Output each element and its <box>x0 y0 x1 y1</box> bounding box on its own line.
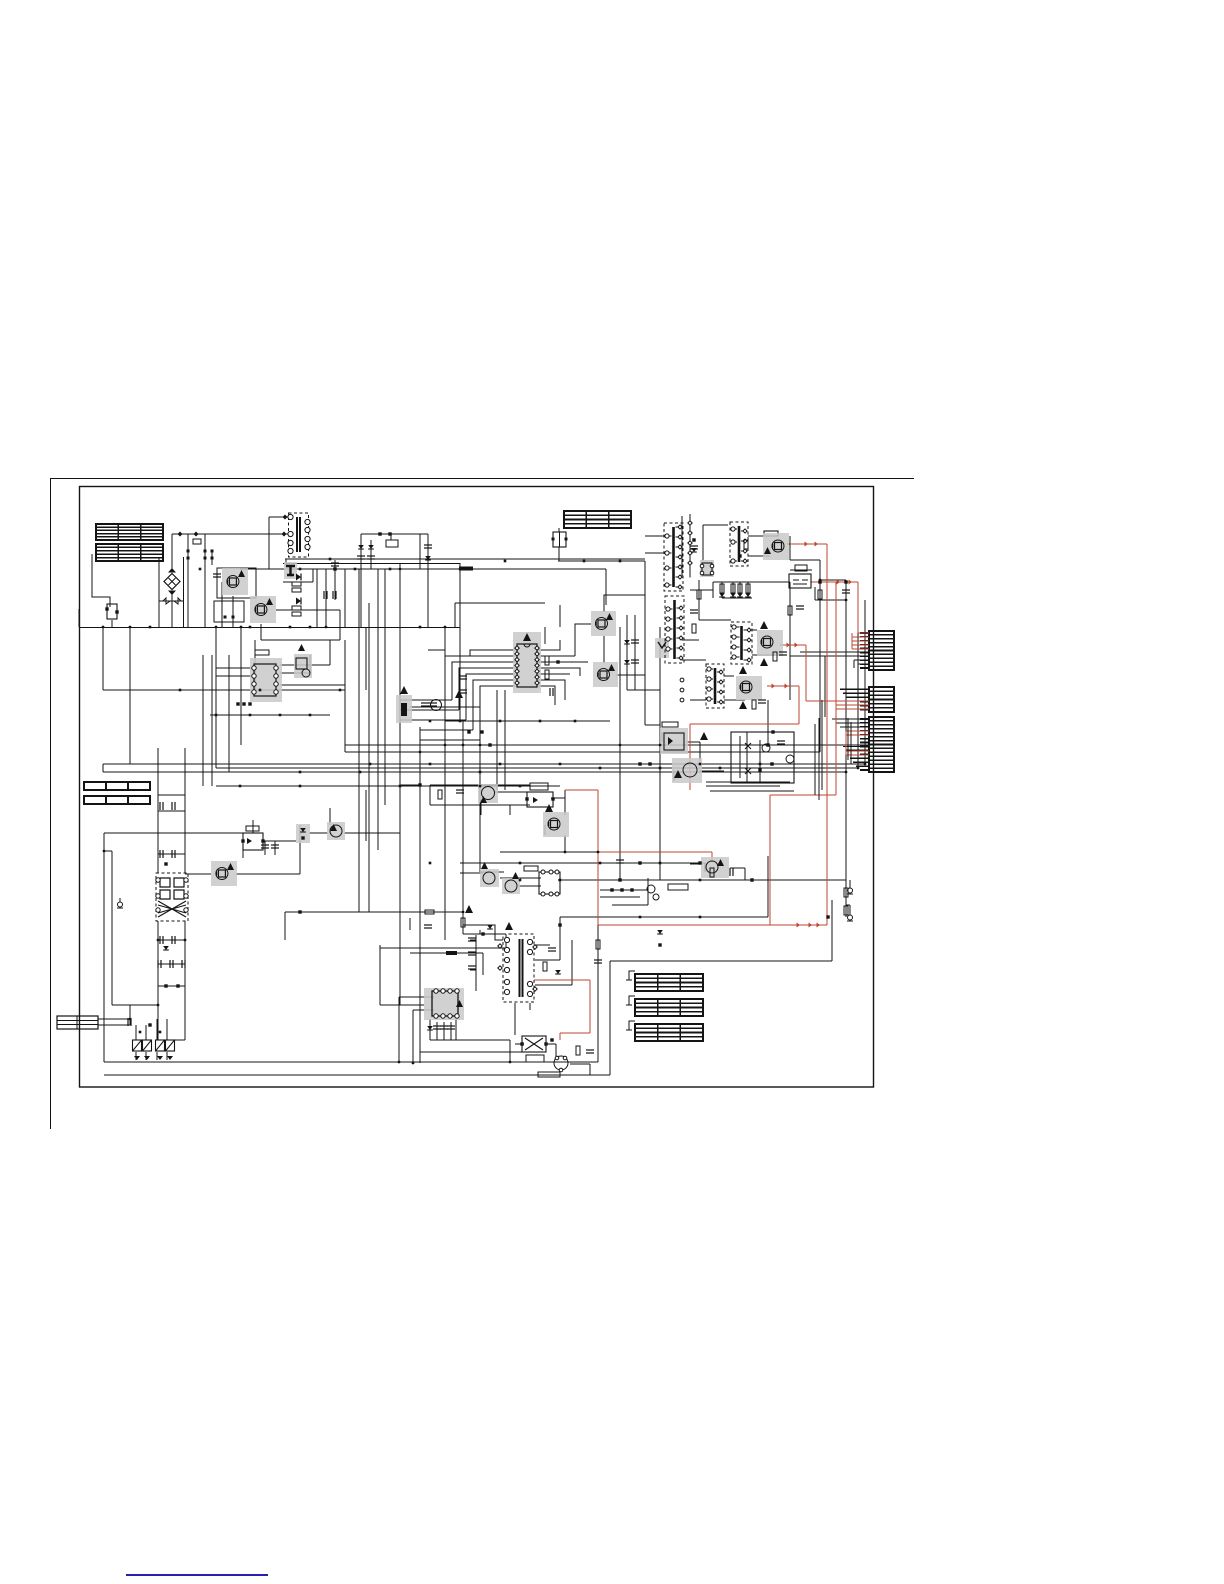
wire <box>857 590 859 768</box>
table hook <box>629 1021 635 1030</box>
wire <box>460 862 705 864</box>
wire (red net) <box>835 582 837 795</box>
wire <box>721 582 723 598</box>
diode pair <box>148 1023 151 1026</box>
wire <box>767 700 769 745</box>
wire <box>274 841 276 855</box>
junction <box>462 911 465 914</box>
junction <box>129 1018 132 1021</box>
wire <box>221 582 223 627</box>
wire <box>819 560 821 580</box>
wire <box>681 516 683 576</box>
wire <box>455 602 545 604</box>
sense cluster <box>600 878 659 905</box>
junction <box>149 626 152 629</box>
small choke L2 <box>700 560 714 577</box>
wire <box>410 706 480 708</box>
wire <box>399 996 434 998</box>
wire <box>360 534 362 627</box>
junction <box>699 763 702 766</box>
wire <box>482 953 484 975</box>
wire <box>864 600 866 764</box>
junction <box>339 689 342 692</box>
wire <box>412 1010 414 1062</box>
wire <box>518 885 541 887</box>
junction <box>479 744 482 747</box>
wire <box>819 652 821 752</box>
transistor Q12 <box>502 872 520 894</box>
wire <box>558 879 846 881</box>
junction <box>767 744 770 747</box>
wire <box>644 561 646 627</box>
junction <box>479 785 482 788</box>
junction <box>359 771 362 774</box>
wire (red net) <box>769 795 771 925</box>
wire <box>686 741 700 743</box>
cap C5 <box>187 550 190 553</box>
wire <box>98 1024 130 1026</box>
reg IC7 <box>524 866 560 896</box>
caps row C11 <box>324 591 327 599</box>
post-reg RG1 <box>789 565 811 588</box>
wire <box>365 790 367 825</box>
wire <box>845 772 847 917</box>
wire <box>78 609 80 627</box>
table note bottom-right 3 <box>635 1024 703 1041</box>
bridge rectifier D1 <box>164 568 180 595</box>
wire <box>603 636 605 663</box>
wire <box>103 689 345 691</box>
wire <box>767 856 769 917</box>
table hook <box>629 971 635 980</box>
wire <box>858 663 869 665</box>
wire <box>840 688 862 690</box>
red arrows <box>805 542 809 547</box>
wire <box>380 1004 424 1006</box>
wire <box>171 534 173 572</box>
wire <box>627 689 660 691</box>
wire <box>564 835 566 852</box>
gray pad <box>655 638 669 658</box>
junction <box>289 626 292 629</box>
junction <box>719 767 722 770</box>
ferrite bead <box>446 951 457 955</box>
wire <box>700 770 724 772</box>
wire <box>452 662 515 700</box>
wire (red net) <box>559 1033 561 1040</box>
wire <box>538 640 560 650</box>
junction <box>459 568 462 571</box>
wire <box>845 886 847 917</box>
wire <box>399 727 401 1005</box>
wire <box>739 582 741 598</box>
junction <box>759 763 762 766</box>
wire <box>509 1040 511 1062</box>
caps C21 <box>331 563 339 566</box>
wire <box>849 905 851 911</box>
junction <box>429 862 432 865</box>
wire <box>102 627 104 690</box>
wire <box>430 804 530 806</box>
wire <box>450 1022 452 1040</box>
wire (red net) <box>852 640 869 642</box>
schematic border <box>80 487 874 1088</box>
wire <box>240 627 242 745</box>
pin column P1b <box>688 514 692 578</box>
junction <box>419 784 422 787</box>
transistor Q13 <box>554 1056 568 1072</box>
wire <box>500 851 598 853</box>
cap C41 <box>459 676 467 679</box>
wire <box>419 534 421 569</box>
wire <box>261 639 340 641</box>
wire trunk horizontals <box>79 516 873 912</box>
wire <box>158 557 160 628</box>
junction <box>157 1004 160 1007</box>
fusible resistor FR1 <box>396 686 412 723</box>
junction <box>129 626 132 629</box>
warn <box>700 732 708 740</box>
wire <box>819 580 821 752</box>
wire <box>240 568 606 570</box>
wire <box>216 767 858 769</box>
diodes left of T5 <box>468 938 476 941</box>
transistor Q11 <box>480 862 499 887</box>
wire <box>462 720 464 934</box>
wire <box>479 740 481 872</box>
small label <box>246 826 259 831</box>
wire <box>856 765 862 767</box>
junction <box>399 785 402 788</box>
wire <box>159 600 183 602</box>
wire <box>215 697 217 768</box>
wire <box>345 744 873 746</box>
junction <box>659 744 662 747</box>
wire (red net) <box>560 1032 590 1034</box>
wire <box>211 551 213 565</box>
wire (red net) <box>690 723 799 725</box>
wire (red net) <box>852 644 869 646</box>
snubber D7 <box>624 640 630 644</box>
wire <box>538 661 588 663</box>
wire <box>436 1022 438 1040</box>
wire <box>538 680 565 700</box>
wire <box>704 863 706 872</box>
junction <box>369 763 372 766</box>
wire <box>157 921 159 1040</box>
wire <box>824 656 826 717</box>
wire <box>428 649 445 651</box>
wire <box>419 752 421 1063</box>
wire <box>444 720 446 940</box>
wire <box>570 1063 590 1065</box>
transistor Q8 <box>211 861 237 886</box>
junction <box>329 558 332 561</box>
wire <box>129 627 131 690</box>
wire <box>790 655 869 657</box>
wire <box>609 961 611 1075</box>
wire <box>515 1043 524 1045</box>
wire <box>843 692 862 694</box>
wire <box>690 589 713 591</box>
wire <box>610 960 832 962</box>
junction <box>479 771 482 774</box>
wire <box>242 833 244 858</box>
wire <box>236 873 300 875</box>
junction <box>597 851 600 854</box>
wire <box>413 1009 434 1011</box>
wire <box>845 580 847 600</box>
wire (red net) <box>852 636 869 638</box>
wire <box>268 517 270 569</box>
wire <box>171 592 173 628</box>
wire <box>555 1044 557 1056</box>
connector CN2 <box>860 687 894 712</box>
wire <box>843 746 862 748</box>
wire <box>559 605 561 627</box>
wire <box>814 587 816 600</box>
junction <box>819 579 822 582</box>
wire <box>575 624 591 656</box>
junction <box>299 568 302 571</box>
wire <box>399 569 401 727</box>
wire <box>480 871 504 873</box>
wire <box>571 940 573 985</box>
wire <box>820 579 846 581</box>
junction <box>519 785 522 788</box>
table <box>84 796 150 804</box>
wire <box>514 1003 516 1035</box>
wire <box>384 569 386 805</box>
wire <box>419 727 421 752</box>
wire (red net) <box>598 924 827 926</box>
cap label above Q5 <box>764 531 778 536</box>
wire <box>129 690 131 764</box>
wire <box>102 764 104 772</box>
wire <box>836 722 862 724</box>
junction <box>499 763 502 766</box>
junction <box>354 568 357 571</box>
wire <box>365 627 367 690</box>
wire <box>790 559 820 561</box>
wire <box>112 1004 158 1006</box>
wire <box>748 555 770 557</box>
wire <box>473 680 515 730</box>
wire <box>712 582 714 598</box>
wire <box>156 1019 158 1040</box>
junction <box>462 744 465 747</box>
pin header P3 <box>680 678 684 702</box>
sheet edge line top <box>50 478 914 480</box>
junction <box>659 767 662 770</box>
wire (red net) <box>845 731 847 755</box>
wire <box>368 603 370 912</box>
wire <box>166 1052 168 1060</box>
wire <box>558 560 645 562</box>
wire <box>410 952 483 954</box>
transistor Q4 <box>593 662 618 687</box>
regulator IC5 <box>241 833 264 850</box>
table note top-left 1 <box>96 524 163 540</box>
wire <box>299 825 301 874</box>
wire <box>846 749 862 751</box>
wire <box>157 748 159 873</box>
wire (red net) <box>711 852 713 862</box>
junction <box>179 689 182 692</box>
wire <box>535 944 550 946</box>
wire <box>183 557 185 628</box>
wire <box>862 667 869 669</box>
wire (red net) <box>857 582 859 633</box>
wire <box>558 547 560 561</box>
junction <box>279 714 282 717</box>
wire <box>377 569 379 850</box>
wire <box>280 664 330 666</box>
wire <box>551 797 565 799</box>
wire <box>545 1043 556 1045</box>
wire <box>316 569 318 627</box>
table note top-left 2 <box>96 544 163 561</box>
junction <box>583 560 586 563</box>
wire <box>604 595 645 612</box>
rect diode block Q6 <box>757 621 783 666</box>
wire <box>840 726 862 728</box>
wire <box>254 640 256 690</box>
ground G1 <box>117 898 123 908</box>
wire <box>158 1039 185 1041</box>
wire (red net) <box>790 543 827 545</box>
small parts <box>456 790 464 793</box>
wire <box>445 655 470 657</box>
wire <box>216 667 252 669</box>
caps under IC3 <box>433 1026 441 1029</box>
junction <box>619 879 622 882</box>
junction <box>469 568 472 571</box>
junction <box>240 626 243 629</box>
wire <box>480 800 482 815</box>
wire <box>470 954 476 956</box>
wire <box>789 582 791 700</box>
wire <box>156 1052 158 1060</box>
warn marks <box>505 922 513 930</box>
junction <box>309 714 312 717</box>
small parts row <box>648 762 651 765</box>
res/cap on outputs <box>692 624 696 633</box>
wire <box>724 675 734 677</box>
wire <box>211 655 213 786</box>
junction <box>157 939 160 942</box>
wire <box>92 554 110 607</box>
wire <box>752 654 775 656</box>
wire <box>366 832 400 834</box>
wire <box>445 720 610 722</box>
wire <box>682 639 699 641</box>
diodes at red taps <box>691 548 697 552</box>
label <box>386 540 398 547</box>
wire <box>400 709 459 711</box>
transformer T3 <box>706 664 724 708</box>
wire <box>790 569 812 571</box>
wire <box>429 785 431 805</box>
small caps on y707 <box>421 703 429 706</box>
wire (red net) <box>846 754 869 756</box>
sheet edge line left <box>50 479 52 1130</box>
transistor Q2 <box>250 596 276 623</box>
wire <box>79 627 460 629</box>
wire <box>673 770 675 781</box>
wire (red net) <box>811 581 858 583</box>
mosfet M7 <box>701 857 729 878</box>
wire (red net) <box>806 700 836 702</box>
junction <box>559 763 562 766</box>
wire <box>443 1022 445 1040</box>
wire <box>260 624 262 640</box>
junction <box>845 599 848 602</box>
wire <box>399 563 401 569</box>
wire <box>752 629 757 631</box>
junction <box>659 862 662 865</box>
wire <box>344 569 346 627</box>
wire <box>430 784 530 786</box>
wire <box>111 620 113 628</box>
wire <box>103 833 105 1062</box>
wire <box>616 674 645 676</box>
wire <box>846 904 850 906</box>
transformer T0 primary <box>664 523 683 591</box>
wire <box>309 655 311 673</box>
wire <box>276 609 340 611</box>
wire <box>429 1019 431 1040</box>
caps near T1 <box>690 546 698 549</box>
junction <box>249 714 252 717</box>
wire <box>538 686 555 705</box>
wire <box>703 524 728 526</box>
wire (red net) <box>805 645 807 701</box>
connector CN4 <box>57 1016 98 1029</box>
wire <box>280 684 345 686</box>
junction <box>699 879 702 882</box>
parts right of T5 <box>543 962 547 971</box>
wire <box>172 533 290 535</box>
junction <box>299 771 302 774</box>
wire <box>767 685 770 687</box>
transistor Q9 <box>478 784 498 803</box>
bundle below B1 <box>706 782 794 791</box>
connector CN3 <box>860 717 894 772</box>
wire <box>158 939 185 941</box>
diode pairs above T7 <box>160 802 163 810</box>
wire (red net) <box>836 704 869 706</box>
junction <box>398 1061 401 1064</box>
wire <box>459 668 515 710</box>
wire <box>365 825 367 841</box>
wire <box>228 655 230 772</box>
wire <box>202 655 204 786</box>
wire (red net) <box>836 708 869 710</box>
wire <box>645 724 660 726</box>
rect diode block Q5 <box>763 533 789 560</box>
wire <box>79 1086 874 1088</box>
wire <box>496 690 498 790</box>
wire (red net) <box>846 750 869 752</box>
wire <box>158 853 185 855</box>
wire <box>702 525 704 561</box>
right verticals <box>815 700 851 800</box>
transformer T2 primary <box>665 596 684 663</box>
wire <box>846 696 862 698</box>
junction <box>419 751 422 754</box>
junction <box>249 626 252 629</box>
